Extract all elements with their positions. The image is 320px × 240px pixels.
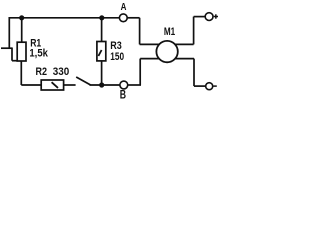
node junction dot R3/bottom rail [99, 82, 104, 87]
terminal A circle [119, 14, 127, 22]
wire switch to node B rail [90, 84, 120, 86]
wire motor upper-left stub [140, 43, 160, 45]
wire vertical up to plus terminal [193, 17, 195, 45]
wire left lower vertical [11, 48, 13, 61]
wire left stub at image edge [1, 47, 13, 49]
wire top rail [9, 17, 119, 19]
terminal minus circle [206, 83, 213, 90]
wire B to motor branch [128, 84, 141, 86]
node junction dot R3/top rail [99, 15, 104, 20]
wire left vertical from top rail [8, 17, 10, 48]
terminal plus circle [205, 13, 213, 21]
label minus sign [213, 85, 217, 87]
svg-text:A: A [121, 2, 127, 13]
wire R2 to switch contact [64, 84, 76, 86]
R3 adjustment slash [98, 50, 101, 56]
svg-text:1,5k: 1,5k [29, 48, 48, 60]
wire R1 top lead [21, 18, 23, 42]
svg-text:330: 330 [53, 66, 70, 78]
label plus sign [214, 14, 218, 18]
motor M1 [156, 41, 177, 62]
resistor R2 [41, 80, 63, 90]
wire connector to R1 bottom [12, 60, 18, 62]
wire R3 bottom lead [101, 61, 103, 85]
svg-text:B: B [120, 87, 127, 101]
node junction dot R1/top rail [19, 15, 24, 20]
wire to plus terminal [194, 16, 206, 18]
wire R1 bottom lead [20, 61, 22, 85]
wire vertical motor lower-left down to B rail [139, 59, 141, 85]
wire bottom left to R2 [21, 84, 41, 86]
svg-text:M1: M1 [164, 26, 175, 38]
wire motor lower-left stub [140, 58, 159, 60]
terminal B circle [120, 81, 128, 89]
wire to minus terminal [194, 85, 206, 87]
wire motor lower-right stub [175, 58, 194, 60]
wire R3 top lead [101, 18, 103, 42]
svg-text:R2: R2 [36, 66, 48, 78]
svg-text:150: 150 [110, 51, 124, 63]
R2 adjustment slash [52, 82, 58, 88]
resistor R3 [97, 42, 106, 61]
switch S1 blade [76, 77, 90, 85]
wire motor upper-right stub [175, 43, 194, 45]
wire vertical down to minus terminal [193, 59, 195, 87]
wire vertical down to motor upper-left [139, 18, 141, 45]
resistor R1 [17, 42, 26, 61]
wire A to motor branch [127, 17, 139, 19]
